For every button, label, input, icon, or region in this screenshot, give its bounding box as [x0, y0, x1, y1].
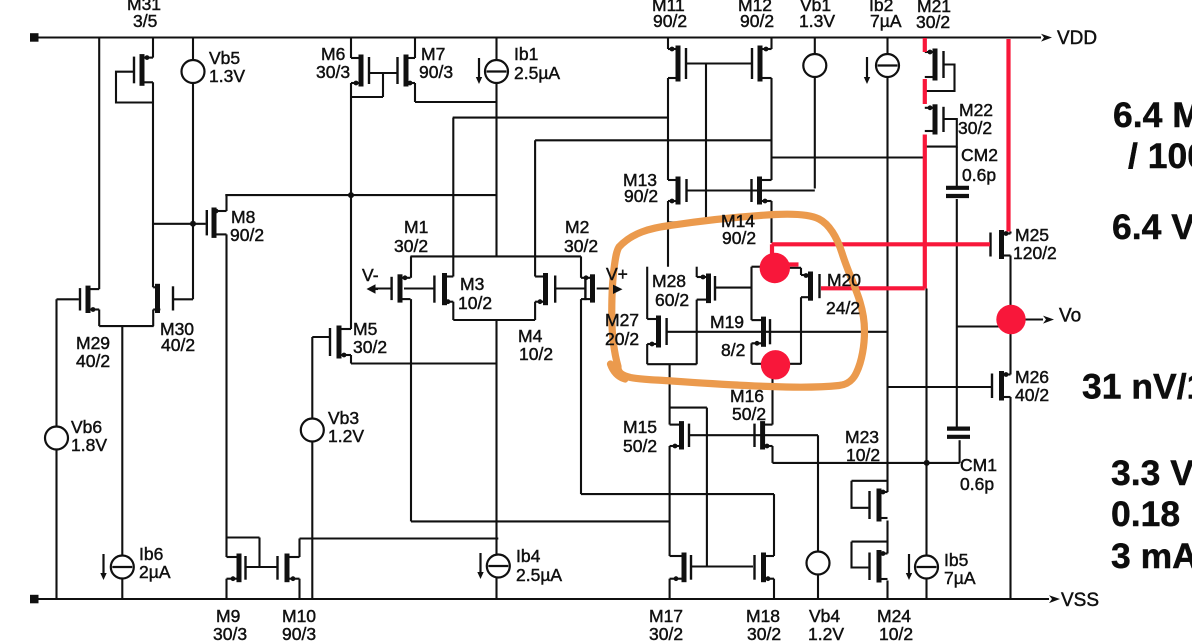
svg-text:6.4 MH: 6.4 MH: [1113, 95, 1192, 135]
svg-text:90/2: 90/2: [230, 225, 264, 245]
svg-text:31 nV/1: 31 nV/1: [1082, 367, 1192, 407]
svg-text:24/2: 24/2: [826, 298, 860, 318]
svg-text:M27: M27: [605, 310, 639, 330]
svg-text:VDD: VDD: [1057, 28, 1097, 49]
svg-text:M23: M23: [845, 427, 879, 447]
svg-text:M29: M29: [76, 333, 110, 353]
svg-text:90/2: 90/2: [653, 11, 687, 31]
svg-text:M4: M4: [518, 326, 543, 346]
svg-text:M25: M25: [1015, 225, 1049, 245]
svg-text:10/2: 10/2: [519, 344, 553, 364]
svg-text:10/2: 10/2: [846, 445, 880, 465]
svg-text:90/3: 90/3: [419, 62, 453, 82]
svg-text:30/3: 30/3: [213, 624, 247, 644]
svg-text:20/2: 20/2: [605, 329, 639, 349]
svg-text:1.2V: 1.2V: [808, 624, 844, 644]
svg-text:0.6p: 0.6p: [960, 474, 994, 494]
svg-text:V-: V-: [362, 265, 379, 285]
svg-text:V+: V+: [606, 264, 628, 284]
svg-text:40/2: 40/2: [1015, 385, 1049, 405]
svg-text:M18: M18: [746, 606, 780, 626]
svg-text:Vo: Vo: [1059, 306, 1081, 327]
svg-text:M10: M10: [282, 606, 316, 626]
svg-text:M5: M5: [353, 319, 377, 339]
svg-text:120/2: 120/2: [1013, 243, 1057, 263]
svg-text:M2: M2: [565, 217, 589, 237]
svg-text:0.18: 0.18: [1111, 494, 1180, 534]
svg-text:30/2: 30/2: [649, 624, 683, 644]
svg-text:90/3: 90/3: [282, 624, 316, 644]
svg-text:M3: M3: [460, 274, 484, 294]
svg-text:90/2: 90/2: [740, 11, 774, 31]
svg-text:6.4 V: 6.4 V: [1112, 207, 1192, 247]
svg-text:CM2: CM2: [961, 145, 998, 165]
svg-text:1.2V: 1.2V: [328, 426, 364, 446]
svg-text:Vb3: Vb3: [328, 408, 359, 428]
svg-text:M9: M9: [216, 606, 240, 626]
svg-text:50/2: 50/2: [623, 436, 657, 456]
svg-text:1.8V: 1.8V: [71, 435, 107, 455]
svg-text:M16: M16: [730, 386, 764, 406]
svg-text:30/3: 30/3: [316, 62, 350, 82]
svg-text:VSS: VSS: [1061, 590, 1099, 611]
svg-text:90/2: 90/2: [624, 186, 658, 206]
svg-text:8/2: 8/2: [721, 340, 745, 360]
svg-text:/ 100: / 100: [1128, 136, 1192, 176]
svg-text:7µA: 7µA: [870, 11, 902, 31]
svg-text:M15: M15: [623, 417, 657, 437]
svg-text:Vb6: Vb6: [71, 417, 102, 437]
svg-text:0.6p: 0.6p: [962, 165, 996, 185]
svg-text:M26: M26: [1015, 367, 1049, 387]
svg-text:30/2: 30/2: [353, 337, 387, 357]
svg-text:40/2: 40/2: [161, 335, 195, 355]
svg-text:30/2: 30/2: [958, 118, 992, 138]
svg-text:30/2: 30/2: [394, 236, 428, 256]
svg-text:60/2: 60/2: [655, 290, 689, 310]
svg-text:Ib1: Ib1: [514, 44, 538, 64]
svg-text:Ib6: Ib6: [139, 544, 163, 564]
svg-text:M7: M7: [421, 44, 445, 64]
svg-text:90/2: 90/2: [722, 228, 756, 248]
svg-text:M19: M19: [710, 312, 744, 332]
svg-text:M1: M1: [404, 217, 428, 237]
svg-text:Vb5: Vb5: [209, 48, 240, 68]
svg-text:M24: M24: [877, 606, 911, 626]
svg-text:30/2: 30/2: [747, 624, 781, 644]
svg-text:1.3V: 1.3V: [799, 11, 835, 31]
svg-text:M6: M6: [321, 44, 345, 64]
svg-text:7µA: 7µA: [944, 568, 976, 588]
svg-text:30/2: 30/2: [916, 12, 950, 32]
svg-text:M28: M28: [652, 271, 686, 291]
svg-text:Vb4: Vb4: [809, 606, 840, 626]
svg-text:Ib5: Ib5: [944, 550, 968, 570]
svg-text:M8: M8: [231, 207, 255, 227]
svg-text:M22: M22: [959, 100, 993, 120]
svg-text:2µA: 2µA: [139, 562, 171, 582]
svg-text:M17: M17: [649, 606, 683, 626]
svg-text:10/2: 10/2: [879, 624, 913, 644]
svg-text:3 mA: 3 mA: [1111, 536, 1192, 576]
svg-text:3/5: 3/5: [133, 11, 157, 31]
svg-text:2.5µA: 2.5µA: [514, 63, 560, 83]
svg-text:40/2: 40/2: [76, 351, 110, 371]
svg-text:1.3V: 1.3V: [209, 66, 245, 86]
svg-text:Ib4: Ib4: [516, 546, 541, 566]
svg-text:2.5µA: 2.5µA: [516, 565, 562, 585]
svg-text:50/2: 50/2: [732, 404, 766, 424]
svg-text:CM1: CM1: [960, 455, 997, 475]
svg-text:3.3 V: 3.3 V: [1111, 453, 1192, 493]
svg-text:10/2: 10/2: [458, 293, 492, 313]
svg-text:M20: M20: [827, 270, 861, 290]
svg-text:30/2: 30/2: [564, 236, 598, 256]
